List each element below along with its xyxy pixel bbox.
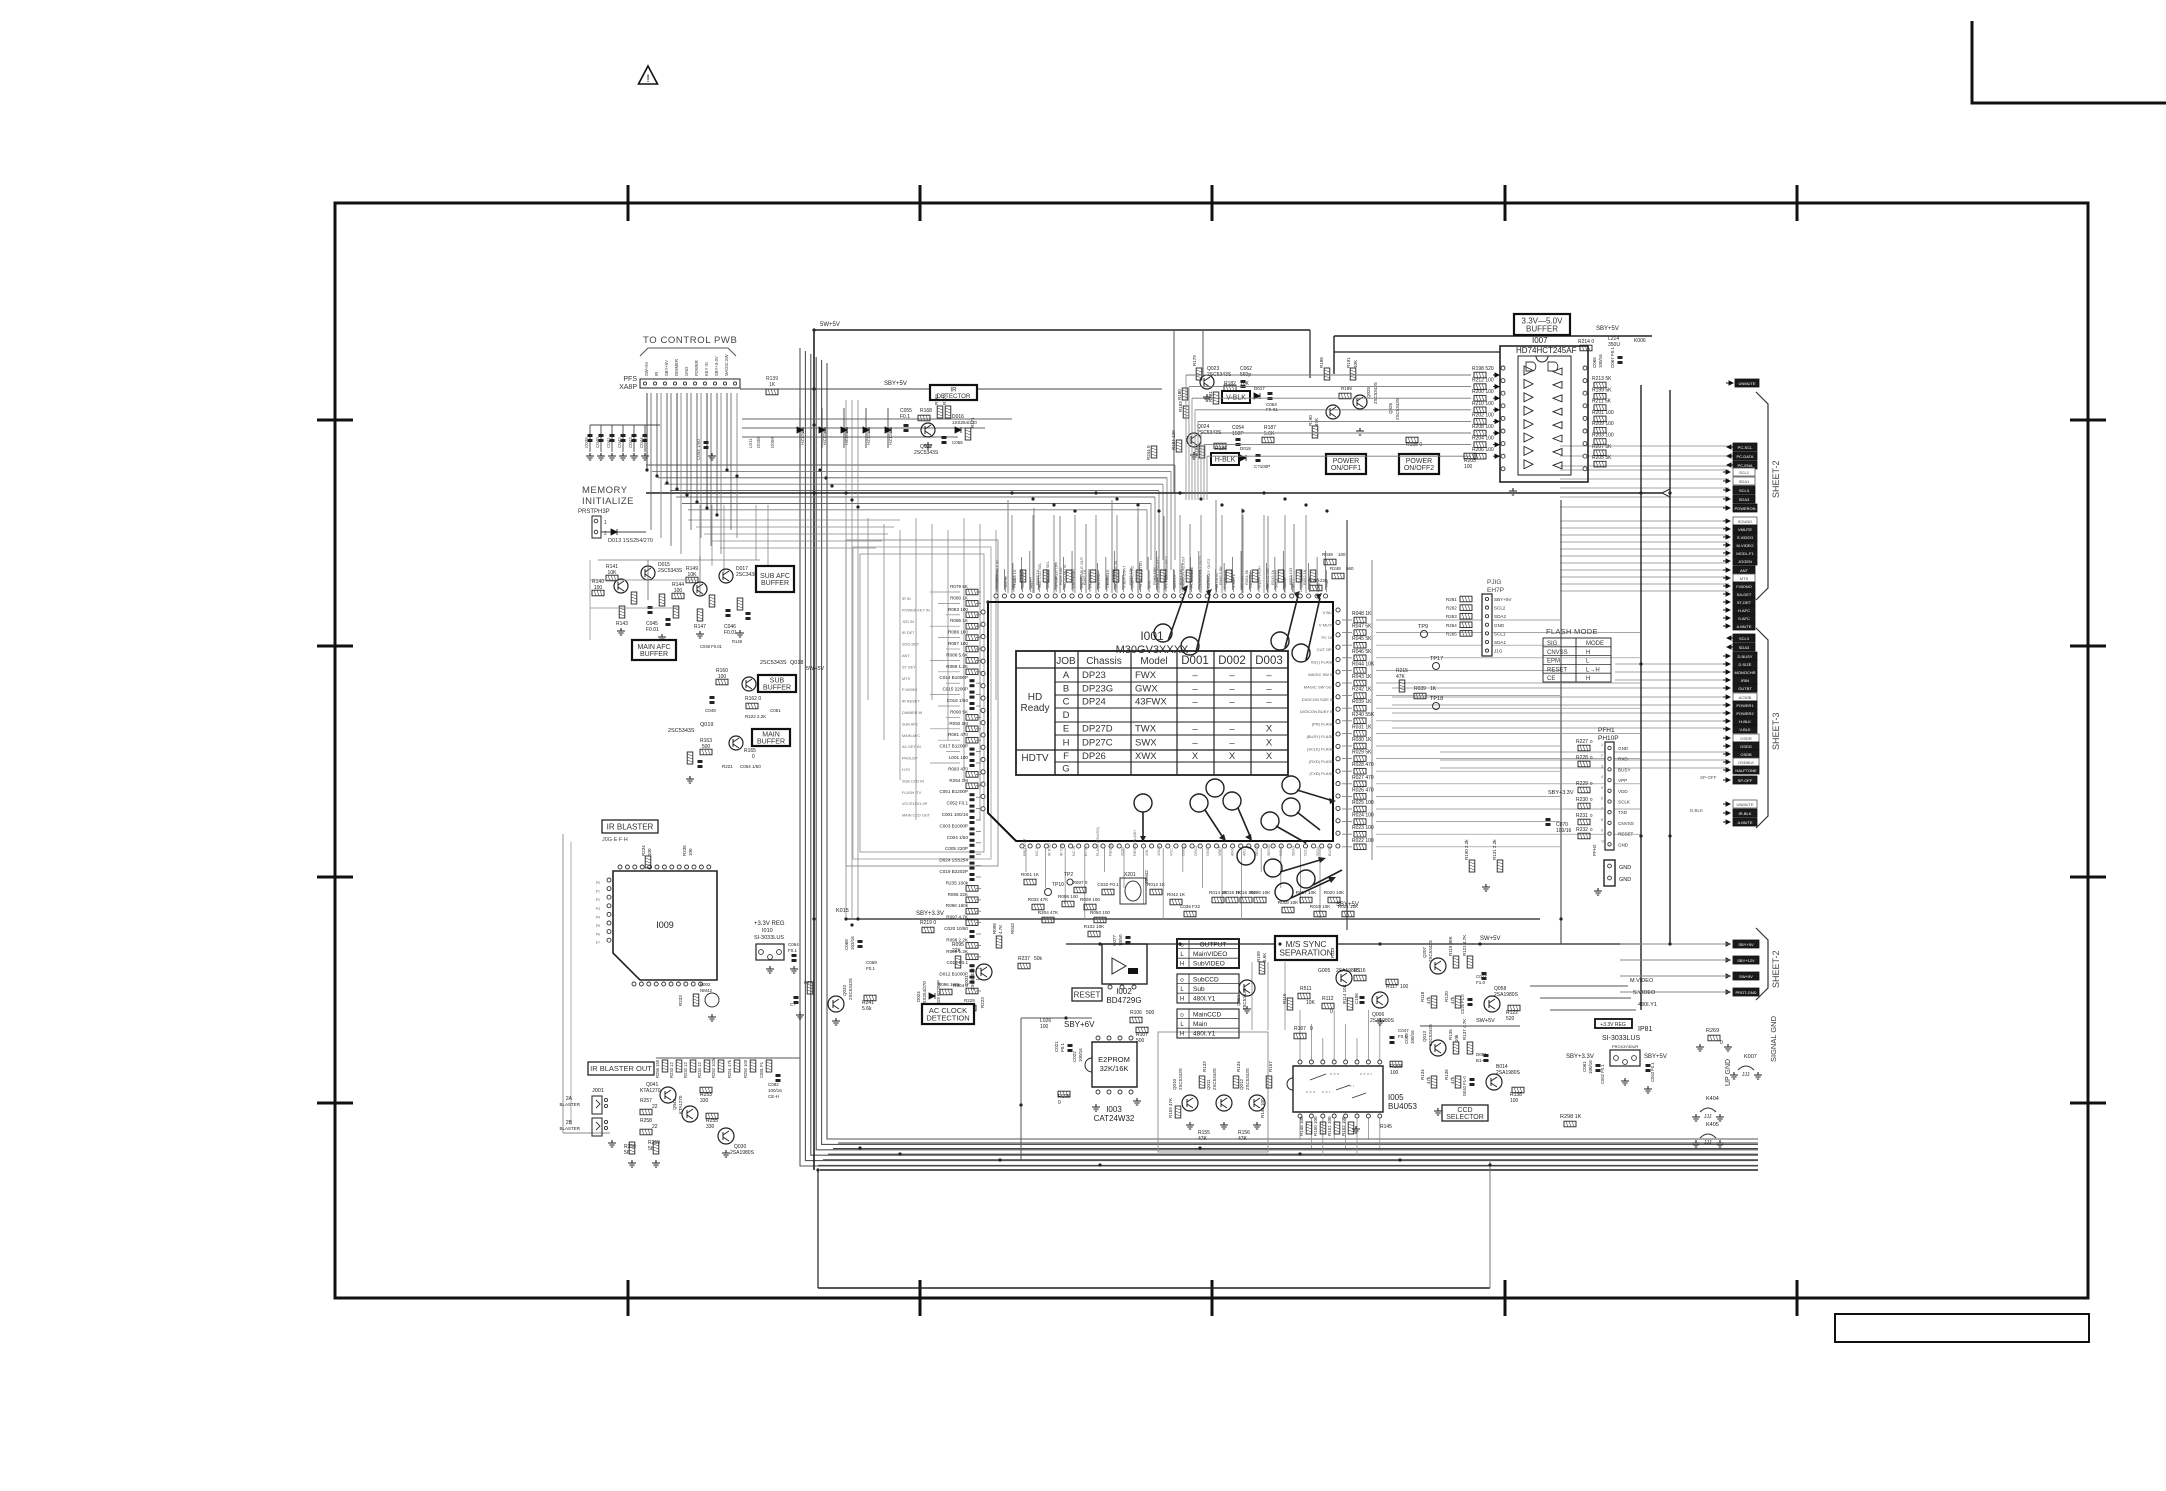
svg-text:BU4053: BU4053 (1388, 1102, 1417, 1111)
svg-text:C014 B1000P: C014 B1000P (939, 675, 968, 680)
svg-text:OSDG: OSDG (1740, 744, 1752, 749)
wire schematic bottom boundary (818, 1287, 1490, 1289)
svg-text:R181: R181 (1208, 391, 1213, 402)
svg-text:R096 160k: R096 160k (938, 982, 961, 987)
ic I002 BD4729G (1102, 944, 1147, 984)
svg-text:TP10: TP10 (1052, 882, 1064, 888)
svg-text:POWER KEY IN: POWER KEY IN (902, 608, 930, 612)
svg-text:520: 520 (1506, 1016, 1515, 1022)
svg-text:10K: 10K (1306, 1000, 1316, 1006)
svg-text:BUFFER: BUFFER (640, 651, 668, 658)
svg-text:C069: C069 (866, 960, 877, 965)
svg-text:100: 100 (647, 848, 652, 856)
svg-text:MTS: MTS (1740, 576, 1749, 581)
svg-text:X: X (1266, 724, 1273, 735)
svg-text:POWER: POWER (1333, 458, 1359, 465)
tags afc group (1723, 608, 1730, 612)
svg-text:C066: C066 (1592, 357, 1597, 368)
svg-text:R098: R098 (992, 923, 997, 934)
svg-text:NC-1: NC-1 (1035, 847, 1039, 856)
svg-text:R031 1K: R031 1K (1352, 724, 1372, 730)
svg-text:GND: GND (1494, 623, 1505, 628)
svg-text:SubCCD: SubCCD (1193, 977, 1219, 984)
wire sby horizontal group (742, 418, 1012, 420)
svg-text:7: 7 (1601, 807, 1603, 811)
svg-text:X: X (1192, 751, 1199, 762)
svg-text:Q033: Q033 (842, 984, 847, 996)
svg-text:E: E (1063, 724, 1069, 735)
svg-text:SHEET-2: SHEET-2 (1771, 950, 1781, 988)
svg-text:8: 8 (1601, 818, 1603, 822)
svg-text:1: 1 (1601, 743, 1603, 747)
label box MAIN AFC BUFFER (632, 640, 676, 660)
svg-text:SCL1: SCL1 (1494, 631, 1506, 636)
svg-text:2SA1980S: 2SA1980S (1494, 992, 1519, 998)
svg-text:CUT OFF: CUT OFF (1317, 647, 1335, 652)
svg-text:R231: R231 (1576, 813, 1588, 819)
svg-text:R199 5K: R199 5K (1592, 387, 1612, 393)
wire IC top pin stubs (1011, 515, 1013, 593)
svg-text:2SC5343S: 2SC5343S (1242, 988, 1247, 1010)
svg-text:R007 0: R007 0 (1073, 880, 1088, 885)
svg-text:5W+5V: 5W+5V (806, 666, 825, 672)
svg-text:R204 100: R204 100 (1472, 436, 1494, 442)
svg-text:SDA3: SDA3 (1291, 846, 1295, 856)
svg-text:R119 38K: R119 38K (1448, 936, 1453, 956)
svg-text:C004 1/50: C004 1/50 (947, 835, 969, 840)
svg-text:JOB: JOB (1056, 656, 1076, 667)
svg-text:R214 0: R214 0 (1578, 339, 1594, 345)
svg-text:SBY+5V: SBY+5V (1336, 902, 1359, 908)
svg-text:R085 1K: R085 1K (950, 618, 969, 623)
svg-text:C043: C043 (628, 437, 633, 448)
svg-text:(BUSY) FLASH: (BUSY) FLASH (1306, 734, 1334, 739)
svg-text:R230: R230 (1576, 797, 1588, 803)
svg-text:RESIN: RESIN (1108, 844, 1112, 856)
wire bottom horizontal bundle (838, 1142, 1758, 1144)
svg-text:R179: R179 (1192, 355, 1197, 366)
svg-text:SIGNAL GND: SIGNAL GND (1769, 1015, 1778, 1062)
svg-text:POWER: POWER (1406, 458, 1432, 465)
svg-text:PFH2: PFH2 (1592, 844, 1597, 856)
svg-text:C051: C051 (770, 708, 781, 713)
svg-text:C005 220P: C005 220P (945, 846, 968, 851)
svg-text:330: 330 (706, 1124, 715, 1130)
svg-text:J001: J001 (592, 1088, 604, 1094)
svg-text:4: 4 (1601, 775, 1603, 779)
svg-text:R039: R039 (1414, 686, 1426, 692)
tags mute group (1723, 802, 1730, 806)
svg-text:R233 12: R233 12 (669, 1061, 674, 1078)
svg-text:R147: R147 (694, 624, 706, 630)
svg-text:(SCLK) FLASH: (SCLK) FLASH (1307, 746, 1334, 751)
svg-text:3: 3 (1601, 764, 1603, 768)
svg-text:I002: I002 (1116, 987, 1132, 996)
svg-text:D.BUSY: D.BUSY (1738, 654, 1753, 659)
svg-text:Q011: Q011 (1206, 1079, 1211, 1090)
label box MAIN BUFFER (752, 729, 790, 746)
svg-text:R234 12: R234 12 (697, 1061, 702, 1078)
wire feeders to I007 resistors (1186, 374, 1471, 376)
svg-text:22: 22 (652, 1124, 658, 1130)
svg-text:C081 F1: C081 F1 (759, 1061, 764, 1078)
revision box bottom-right (1835, 1314, 2089, 1342)
svg-text:SCLK: SCLK (1618, 800, 1631, 805)
svg-text:(TXD) FLASH: (TXD) FLASH (1309, 771, 1334, 776)
svg-text:SCL2: SCL2 (1274, 579, 1278, 589)
svg-text:XIN: XIN (1145, 849, 1149, 856)
svg-text:R205 5K: R205 5K (1592, 455, 1612, 461)
svg-text:DP23G: DP23G (1082, 684, 1113, 695)
svg-text:R106: R106 (1130, 1010, 1142, 1016)
svg-text:L→H: L→H (1586, 667, 1600, 673)
svg-text:2SC5343S: 2SC5343S (970, 968, 975, 990)
svg-text:R208 100: R208 100 (1472, 424, 1494, 430)
svg-text:Q207: Q207 (1422, 946, 1427, 958)
wire right ladder extensions (1376, 619, 1560, 621)
svg-text:R207 5K: R207 5K (1592, 444, 1612, 450)
svg-text:DIMMER IN: DIMMER IN (902, 711, 923, 715)
wire verticals left ladder feed (867, 518, 869, 700)
svg-text:DATA/KEY OUT2: DATA/KEY OUT2 (1207, 559, 1211, 588)
svg-text:100: 100 (1390, 1070, 1399, 1076)
tags scl3 group (1727, 636, 1734, 640)
svg-text:F0.1: F0.1 (900, 414, 910, 420)
svg-text:EPM: EPM (1547, 659, 1560, 665)
svg-text:⊙: ⊙ (1180, 1013, 1184, 1019)
svg-text:2SC5343S: 2SC5343S (658, 568, 683, 574)
svg-text:A: A (1063, 670, 1070, 681)
svg-text:H-BLK: H-BLK (1215, 457, 1236, 464)
svg-text:SBY+5V: SBY+5V (664, 360, 669, 376)
svg-text:MODL.F1: MODL.F1 (1736, 551, 1754, 556)
svg-text:SCL2: SCL2 (1494, 606, 1506, 611)
svg-text:JJJ: JJJ (1704, 1114, 1712, 1120)
svg-text:HZ12C3: HZ12C3 (800, 428, 805, 445)
svg-text:R116: R116 (1354, 968, 1366, 974)
svg-text:–: – (1192, 670, 1198, 681)
svg-text:PC ENABLE: PC ENABLE (1190, 566, 1194, 588)
svg-text:TP17: TP17 (1430, 656, 1443, 662)
label box SUB BUFFER (758, 675, 796, 692)
svg-text:R159 47K: R159 47K (1168, 1098, 1173, 1118)
svg-text:GWX: GWX (1135, 684, 1158, 695)
svg-text:G: G (1062, 764, 1069, 775)
svg-text:R092 1M: R092 1M (949, 721, 968, 726)
svg-text:POWER: POWER (694, 360, 699, 376)
svg-text:R252 102k: R252 102k (711, 1057, 716, 1078)
svg-text:DM ENABLE OUT: DM ENABLE OUT (1080, 556, 1084, 588)
frame tick marks bottom (627, 1280, 630, 1316)
svg-text:R228: R228 (1576, 755, 1588, 761)
svg-text:R027 470: R027 470 (1352, 775, 1374, 781)
svg-text:R048 1K: R048 1K (1352, 611, 1372, 617)
wire connector long drops (650, 393, 652, 530)
svg-text:–: – (1229, 724, 1235, 735)
svg-text:D.SIZE: D.SIZE (1739, 662, 1752, 667)
svg-text:–: – (1192, 724, 1198, 735)
svg-text:PC ON: PC ON (1241, 576, 1245, 588)
svg-text:R203 100: R203 100 (1592, 433, 1614, 439)
svg-text:5W+5V: 5W+5V (820, 322, 840, 328)
svg-text:IR IN: IR IN (902, 597, 911, 601)
svg-text:ON/OFF1: ON/OFF1 (1331, 465, 1361, 472)
svg-text:C044 1/50: C044 1/50 (696, 439, 701, 460)
svg-text:R168: R168 (920, 408, 932, 414)
svg-text:R213 5K: R213 5K (1592, 376, 1612, 382)
svg-text:R262: R262 (1446, 606, 1457, 611)
svg-text:IRIN: IRIN (1741, 678, 1749, 683)
svg-text:Ready: Ready (1021, 703, 1050, 714)
svg-text:R096 160k: R096 160k (946, 903, 969, 908)
svg-text:SW+5V: SW+5V (1739, 974, 1753, 979)
svg-text:KEY IN: KEY IN (704, 362, 709, 376)
svg-text:X: X (1266, 738, 1273, 749)
svg-text:SBY+5V: SBY+5V (1644, 1054, 1667, 1060)
svg-text:!: ! (646, 73, 649, 85)
svg-text:R232 12: R232 12 (683, 1061, 688, 1078)
svg-text:560: 560 (1346, 566, 1354, 571)
svg-text:HZ12C3: HZ12C3 (888, 428, 893, 445)
svg-text:100: 100 (1400, 984, 1409, 990)
svg-text:R030 1K: R030 1K (1352, 737, 1372, 743)
svg-text:SDA1: SDA1 (1316, 846, 1320, 856)
svg-text:IR: IR (654, 372, 659, 376)
svg-text:OSDBLK: OSDBLK (1738, 760, 1755, 765)
svg-text:R090 5K: R090 5K (950, 709, 969, 714)
svg-text:V-BLK: V-BLK (1739, 727, 1751, 732)
svg-text:C062 F0.1: C062 F0.1 (1600, 1064, 1605, 1084)
svg-text:IR RESET: IR RESET (902, 700, 920, 704)
svg-text:J0G∙E∙F∙H: J0G∙E∙F∙H (602, 837, 628, 843)
svg-text:2: 2 (1601, 754, 1603, 758)
svg-text:R039 1K: R039 1K (1352, 699, 1372, 705)
svg-text:MAIN AFC: MAIN AFC (902, 734, 920, 738)
svg-text:R097 4.7K: R097 4.7K (946, 915, 969, 920)
svg-text:2SC5343S: 2SC5343S (1178, 1068, 1183, 1090)
svg-text:2SC5343S: 2SC5343S (1373, 382, 1378, 404)
svg-text:B: B (1063, 684, 1069, 695)
svg-text:R093 470: R093 470 (948, 766, 968, 771)
svg-text:KTA1270: KTA1270 (640, 1088, 661, 1094)
wire vertical bundle mid (845, 400, 847, 919)
svg-text:SUB CCD SEL: SUB CCD SEL (1038, 563, 1042, 588)
svg-text:2SA1980S: 2SA1980S (730, 1150, 755, 1156)
svg-text:F0.01: F0.01 (724, 630, 737, 636)
svg-text:H: H (1180, 997, 1184, 1003)
svg-text:C054 1/50: C054 1/50 (740, 764, 761, 769)
IC top pin row (994, 594, 998, 598)
svg-text:J2G IN: J2G IN (902, 620, 914, 624)
svg-text:C067 F0.1: C067 F0.1 (1610, 346, 1615, 368)
svg-text:RESET: RESET (1547, 667, 1567, 673)
svg-text:FWX: FWX (1135, 670, 1157, 681)
svg-text:R233: R233 (678, 995, 683, 1006)
svg-text:D024: D024 (916, 991, 921, 1002)
svg-text:2SC5343S: 2SC5343S (760, 660, 787, 666)
svg-text:5.6k: 5.6k (862, 1006, 872, 1012)
wire loops left of I001 (846, 540, 998, 866)
svg-text:SBY+5V: SBY+5V (1738, 942, 1754, 947)
svg-text:BHE: BHE (1148, 580, 1152, 588)
svg-text:R222 2.2K: R222 2.2K (745, 714, 766, 719)
svg-text:R227: R227 (1576, 739, 1588, 745)
svg-text:BUFFER: BUFFER (757, 739, 785, 746)
svg-text:R196 10K: R196 10K (1250, 890, 1271, 895)
svg-text:M.VIDEO: M.VIDEO (1737, 543, 1754, 548)
svg-text:F: F (1063, 751, 1069, 762)
svg-text:SP-OFF: SP-OFF (1700, 775, 1717, 780)
svg-text:R083 100: R083 100 (948, 607, 968, 612)
tags sheet2 bottom group (1723, 942, 1730, 946)
svg-text:MAIN AFC: MAIN AFC (637, 644, 670, 651)
svg-text:R250 100: R250 100 (743, 1059, 748, 1078)
svg-text:TWX: TWX (1135, 724, 1157, 735)
border frame (335, 203, 2088, 1298)
svg-text:4.7K: 4.7K (998, 925, 1003, 934)
svg-text:SI-3033LUS: SI-3033LUS (1602, 1035, 1640, 1042)
svg-text:XCIN: XCIN (1121, 847, 1125, 856)
svg-text:C017 B1200P: C017 B1200P (939, 744, 968, 749)
svg-text:SDA3: SDA3 (1739, 645, 1750, 650)
analog switch I005 BU4053 (1293, 1066, 1383, 1112)
svg-text:R044 10K: R044 10K (1352, 661, 1375, 667)
svg-text:IR DET: IR DET (1012, 575, 1016, 588)
svg-text:PROJECT: PROJECT (1023, 838, 1027, 856)
svg-text:H-BLK: H-BLK (1739, 719, 1751, 724)
svg-text:R113: R113 (1330, 947, 1335, 958)
wire right column feeders (1560, 445, 1729, 447)
svg-text:IR BLASTER OUT: IR BLASTER OUT (590, 1064, 652, 1073)
svg-text:TP2: TP2 (1064, 872, 1073, 878)
svg-text:BUFFER: BUFFER (1526, 324, 1558, 333)
svg-text:MAGIC SW OUT: MAGIC SW OUT (1304, 684, 1335, 689)
svg-text:R162 0: R162 0 (745, 696, 761, 702)
svg-text:RXD: RXD (1618, 757, 1628, 762)
svg-text:MAIN CCD SEL: MAIN CCD SEL (1046, 561, 1050, 588)
svg-text:R018 10K: R018 10K (1278, 900, 1299, 905)
label box 3.3V-5.0V BUFFER (1514, 314, 1570, 335)
IC right pin column (1336, 608, 1340, 612)
svg-text:47k: 47k (1450, 1076, 1455, 1084)
svg-text:R043 1K: R043 1K (1352, 674, 1372, 680)
svg-text:FLASH ITV: FLASH ITV (902, 791, 922, 795)
svg-text:XA8P: XA8P (619, 384, 637, 391)
svg-text:SCL1: SCL1 (1739, 470, 1750, 475)
svg-text:100: 100 (688, 848, 693, 856)
svg-text:C048 F0.01: C048 F0.01 (700, 644, 723, 649)
svg-text:PFH1: PFH1 (1598, 727, 1615, 734)
svg-text:GND: GND (1206, 847, 1210, 856)
svg-text:K007: K007 (1744, 1054, 1757, 1060)
svg-text:F0.1: F0.1 (1060, 1042, 1065, 1052)
svg-text:SP-OFF: SP-OFF (1738, 778, 1753, 783)
svg-text:SW+5V: SW+5V (1476, 1018, 1495, 1024)
svg-text:R190: R190 (1308, 415, 1313, 426)
svg-text:H: H (1180, 962, 1184, 968)
svg-text:2SA1980S: 2SA1980S (1496, 1070, 1521, 1076)
svg-text:2SC5343S: 2SC5343S (1428, 940, 1433, 962)
svg-text:R210 100: R210 100 (1472, 401, 1494, 407)
svg-text:SA-DET: SA-DET (1737, 592, 1752, 597)
svg-text:R087 100: R087 100 (948, 641, 968, 646)
svg-text:R008 100: R008 100 (1080, 897, 1100, 902)
label box POWER ON/OFF2 (1399, 454, 1439, 474)
frame tick marks left (317, 419, 353, 422)
svg-text:5.6K: 5.6K (1262, 953, 1267, 962)
svg-text:PROT-GND: PROT-GND (1735, 990, 1756, 995)
svg-text:D001: D001 (1181, 655, 1209, 667)
svg-text:R112: R112 (1322, 996, 1334, 1002)
tags SCL/SDA group (1723, 470, 1730, 474)
svg-text:Q013: Q013 (1422, 1030, 1427, 1042)
svg-text:F0.01: F0.01 (646, 627, 659, 633)
svg-text:G005: G005 (1318, 968, 1330, 974)
svg-text:R264: R264 (1446, 623, 1457, 628)
svg-text:R148: R148 (732, 639, 743, 644)
svg-text:BUFFER: BUFFER (761, 580, 789, 587)
svg-text:Q004: Q004 (1236, 994, 1241, 1006)
svg-text:F0.1: F0.1 (788, 948, 798, 953)
svg-text:C106: C106 (1354, 993, 1359, 1004)
wire IR blaster left loop (562, 834, 564, 1133)
tags video group (1723, 519, 1730, 523)
svg-text:R114 10K: R114 10K (1342, 984, 1347, 1004)
label box V-BLK (1222, 391, 1250, 403)
svg-text:D040 F1-0: D040 F1-0 (1462, 1076, 1467, 1096)
svg-text:J2G IN: J2G IN (1004, 576, 1008, 588)
svg-text:R032 47K: R032 47K (1028, 897, 1049, 902)
svg-text:TXD: TXD (1325, 580, 1329, 588)
svg-text:SBY+3.3V: SBY+3.3V (1548, 790, 1574, 796)
svg-text:R229: R229 (1576, 781, 1588, 787)
svg-text:R012 1K: R012 1K (1147, 882, 1166, 887)
svg-text:D003: D003 (1255, 655, 1283, 667)
svg-text:P1: P1 (596, 890, 600, 894)
tags PC group (1727, 445, 1734, 449)
svg-text:C019 B2202P: C019 B2202P (939, 869, 968, 874)
svg-text:SCL3: SCL3 (1739, 488, 1750, 493)
svg-text:R235 100k: R235 100k (946, 880, 969, 885)
svg-text:SW+5V: SW+5V (1480, 936, 1501, 942)
svg-text:L011: L011 (748, 438, 753, 448)
svg-text:C068: C068 (844, 939, 849, 950)
wire I005 pin drops (1299, 1010, 1301, 1060)
label box POWER ON/OFF1 (1326, 454, 1366, 474)
svg-text:XWX: XWX (1135, 751, 1157, 762)
svg-text:S.VIDEO: S.VIDEO (1633, 990, 1656, 996)
svg-text:E2PROM: E2PROM (1098, 1055, 1130, 1064)
svg-text:SBY+5V: SBY+5V (884, 381, 907, 387)
svg-text:DP27C: DP27C (1082, 738, 1113, 749)
svg-text:TP18: TP18 (1430, 696, 1443, 702)
svg-text:R080 1K: R080 1K (950, 595, 969, 600)
svg-text:BYTE: BYTE (1084, 846, 1088, 856)
svg-text:(PR) FLASH: (PR) FLASH (1312, 722, 1334, 727)
svg-text:H: H (1586, 650, 1590, 656)
svg-text:C022: C022 (1072, 1051, 1077, 1062)
svg-text:P6: P6 (596, 933, 600, 937)
svg-text:PJIG: PJIG (1487, 579, 1501, 586)
svg-text:2SC5343S: 2SC5343S (1245, 1068, 1250, 1090)
svg-text:43FWX: 43FWX (1135, 697, 1167, 708)
svg-text:R135: R135 (1448, 1029, 1453, 1040)
svg-text:–: – (1192, 684, 1198, 695)
svg-text:CNVSS: CNVSS (1547, 650, 1568, 656)
svg-text:C061: C061 (1582, 1061, 1587, 1072)
svg-text:MAGIC.SW: MAGIC.SW (724, 354, 729, 376)
svg-text:SBY+3.3V: SBY+3.3V (916, 911, 944, 917)
